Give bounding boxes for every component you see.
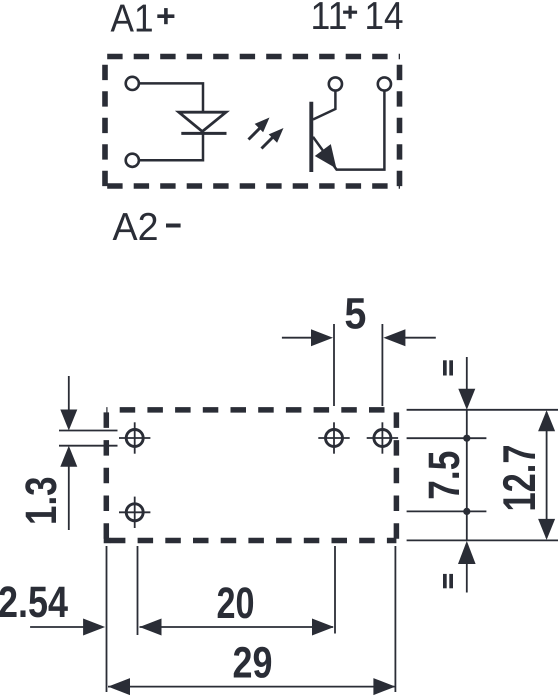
dimension 2.54: line + arrow xyxy=(30,626,85,628)
extension line: footprint right edge down xyxy=(394,546,396,692)
optocoupler outline (dashed box) xyxy=(104,54,400,189)
terminal 14 circle xyxy=(378,77,391,90)
dimension 1.3: arrow below xyxy=(60,446,77,467)
pin row2 extension line (right) xyxy=(407,510,487,512)
light emission arrow 2 xyxy=(262,128,284,149)
pin row1 extension line (right) xyxy=(407,437,487,439)
LED D1 (diode triangle + cathode bar) xyxy=(179,112,226,131)
svg-text:1.3: 1.3 xyxy=(17,476,66,525)
svg-text:5: 5 xyxy=(344,289,366,338)
wire LED cathode to A2 xyxy=(140,134,204,161)
phototransistor emitter wire + bottom wire to 14 xyxy=(313,91,384,170)
pin hole 1 (row1 col1) xyxy=(119,422,150,453)
dimension 29: line + arrows xyxy=(108,686,394,688)
dimension 5: extension lines xyxy=(334,324,382,406)
svg-text:12.7: 12.7 xyxy=(493,445,545,512)
terminal label 11+ xyxy=(311,0,358,38)
wire A1 to LED anode xyxy=(140,83,204,112)
footprint top extension line (right) xyxy=(407,409,558,411)
footprint bottom extension line (right) xyxy=(407,539,558,541)
pin hole 4 (row1 col3) xyxy=(367,422,398,453)
dimension 12.7: line + arrows xyxy=(546,412,548,538)
terminal A1 circle xyxy=(126,77,139,90)
terminal label A2- xyxy=(113,206,181,249)
dimension 1.3: tick lines xyxy=(59,430,118,432)
phototransistor T1 base bar xyxy=(309,102,313,172)
dimension 1.3: arrow above xyxy=(68,376,70,412)
equal spacing mark bottom xyxy=(443,574,453,588)
dimension 7.5/12.7: top arrow at footprint top xyxy=(466,357,468,392)
terminal label A1+ xyxy=(111,0,175,41)
phototransistor collector wire xyxy=(313,91,335,120)
svg-text:A2: A2 xyxy=(113,206,159,249)
svg-text:20: 20 xyxy=(217,579,255,628)
svg-text:11: 11 xyxy=(311,0,348,38)
light emission arrow 1 xyxy=(249,118,270,140)
pin hole 3 (row1 col2) xyxy=(318,422,349,453)
svg-text:7.5: 7.5 xyxy=(420,451,469,500)
svg-text:14: 14 xyxy=(365,0,404,38)
extension line: pin col1 down xyxy=(137,546,139,635)
equal spacing mark top xyxy=(443,360,453,375)
svg-text:A1: A1 xyxy=(111,0,154,41)
pin hole 2 (row2 col1) xyxy=(119,497,150,528)
svg-text:29: 29 xyxy=(233,639,273,688)
dimension 20: line + arrows xyxy=(140,626,334,628)
terminal A2 circle xyxy=(126,154,139,167)
extension line: pin col2 down xyxy=(334,546,336,634)
svg-text:2.54: 2.54 xyxy=(0,578,68,627)
terminal 11 circle xyxy=(329,77,342,90)
PCB footprint outline (dashed box) xyxy=(104,407,397,543)
emitter arrowhead xyxy=(315,144,337,168)
dimension 5: dim lines + arrows xyxy=(282,337,436,339)
extension line: footprint left edge down xyxy=(106,546,108,692)
dimension 7.5: line + node dots xyxy=(466,410,468,541)
bottom arrow at footprint bottom xyxy=(458,541,476,564)
